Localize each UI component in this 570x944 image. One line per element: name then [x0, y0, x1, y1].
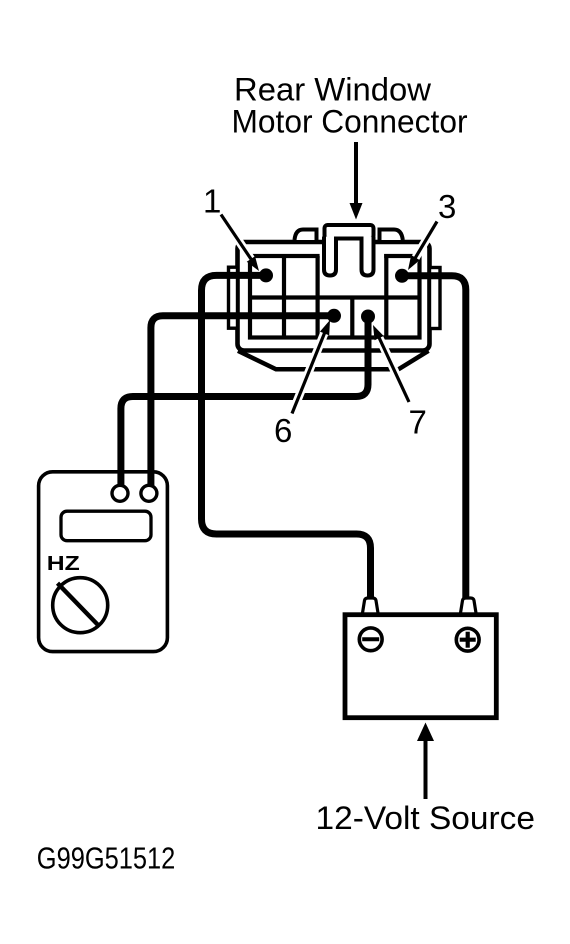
right side tab	[430, 268, 441, 329]
leader arrow for label 1	[221, 215, 263, 274]
latch top tab	[325, 225, 374, 239]
meter body	[39, 472, 168, 652]
grid vertical V4	[384, 254, 388, 338]
minus terminal symbol	[359, 628, 382, 651]
svg-text:1: 1	[203, 183, 221, 220]
small top tab right	[380, 230, 403, 241]
svg-text:12-Volt Source: 12-Volt Source	[316, 800, 536, 836]
wire pin6 to meter right terminal	[151, 316, 334, 488]
outer shell	[238, 242, 430, 351]
inner face rect	[250, 256, 420, 338]
meter terminal right	[141, 485, 157, 501]
grid middle horizontal	[248, 295, 422, 299]
latch right leg	[362, 237, 374, 276]
svg-text:Motor Connector: Motor Connector	[232, 104, 468, 140]
svg-text:G99G51512: G99G51512	[37, 841, 176, 876]
small top tab left	[295, 230, 317, 241]
left side tab	[229, 267, 238, 328]
gap in inner top edge (latch recess)	[320, 250, 385, 262]
svg-text:Rear Window: Rear Window	[234, 72, 432, 108]
knob pointer line	[58, 583, 100, 626]
battery positive post	[461, 598, 477, 613]
leader arrow for label 3	[404, 222, 437, 273]
plus terminal symbol	[456, 628, 479, 651]
battery	[345, 598, 496, 718]
svg-text:HZ: HZ	[47, 552, 80, 575]
meter knob	[53, 578, 108, 633]
leader arrow for label 6	[292, 318, 335, 413]
grid vertical V3	[350, 298, 354, 338]
title arrow	[350, 142, 363, 220]
grid vertical V1	[282, 256, 286, 338]
wire pin3 to battery plus	[402, 276, 466, 601]
svg-text:3: 3	[438, 188, 456, 225]
meter terminal left	[112, 485, 128, 501]
pin 1 dot	[259, 268, 273, 282]
pin 3 dot	[395, 269, 409, 283]
meter display	[61, 511, 151, 541]
grid vertical V2	[316, 256, 320, 338]
leader arrow for label 7	[368, 323, 409, 402]
wire pin1 to battery minus	[202, 275, 371, 601]
bottom keel	[238, 351, 429, 370]
gap in top edge under latch	[324, 235, 375, 249]
battery case	[345, 615, 496, 718]
connector body	[229, 225, 441, 369]
arrow to battery (12-Volt Source)	[417, 723, 434, 800]
battery negative post	[363, 598, 379, 613]
title: Rear Window Motor Connector	[232, 72, 468, 140]
pin 6 dot	[327, 309, 341, 323]
multimeter	[47, 485, 157, 632]
svg-text:6: 6	[274, 412, 292, 449]
wire pin7 to meter left terminal	[121, 317, 368, 489]
latch left leg	[324, 237, 336, 276]
svg-text:7: 7	[409, 403, 427, 440]
pin 7 dot	[361, 310, 375, 324]
